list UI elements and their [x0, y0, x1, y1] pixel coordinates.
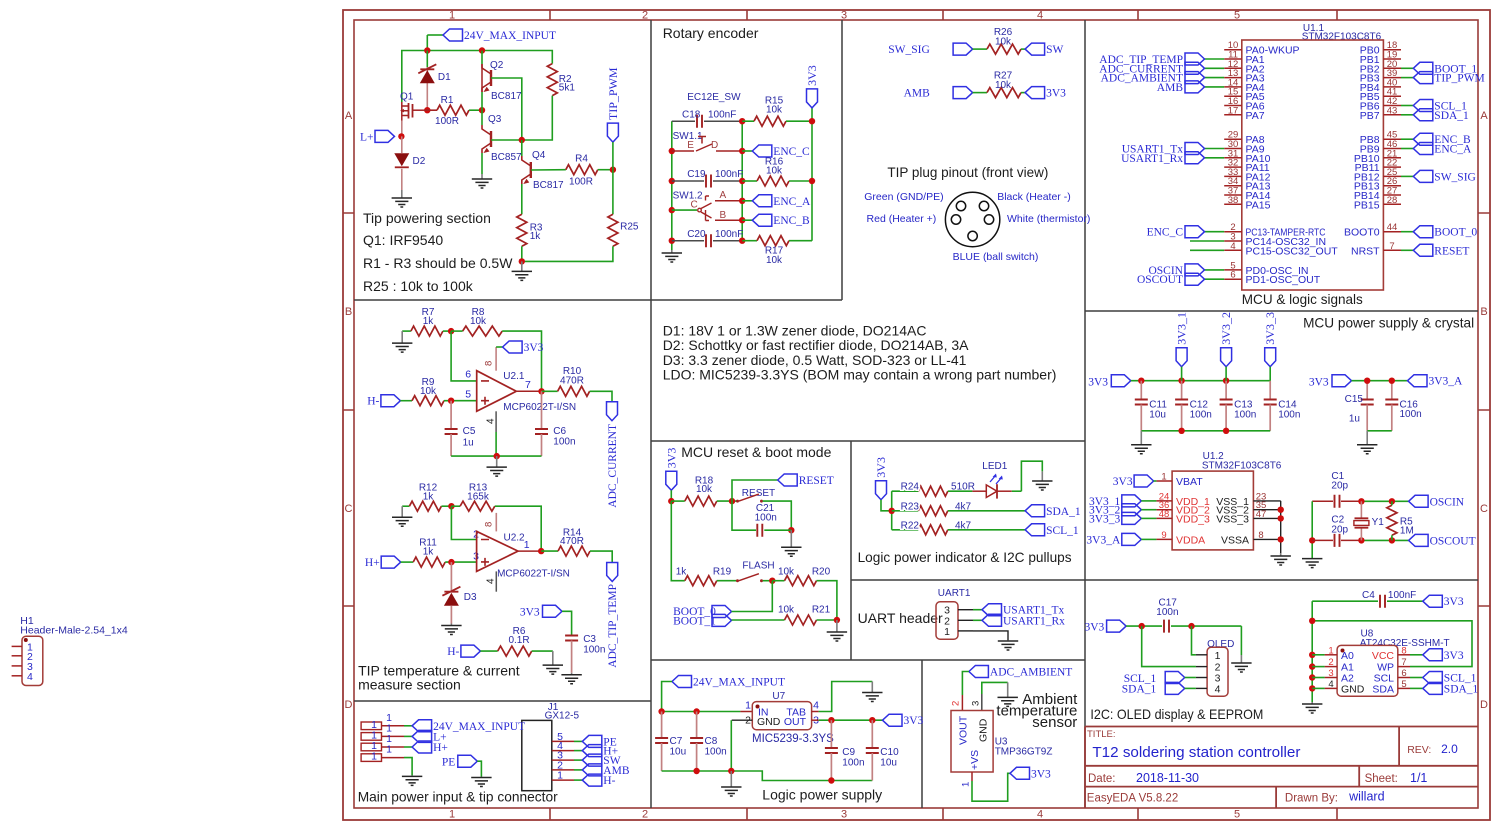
svg-text:AMB: AMB — [904, 88, 931, 100]
svg-text:E: E — [687, 140, 694, 151]
svg-text:U2.2: U2.2 — [504, 533, 526, 544]
svg-text:SDA_1: SDA_1 — [1434, 110, 1469, 122]
svg-text:LDO: MIC5239-3.3YS (BOM may co: LDO: MIC5239-3.3YS (BOM may contain a wr… — [663, 367, 1057, 383]
svg-text:3: 3 — [841, 809, 847, 821]
svg-text:measure section: measure section — [358, 677, 461, 693]
svg-text:3V3_A: 3V3_A — [1086, 534, 1121, 546]
svg-text:VDDA: VDDA — [1176, 534, 1205, 546]
svg-text:1: 1 — [449, 809, 455, 821]
svg-text:PA7: PA7 — [1246, 110, 1265, 122]
svg-text:willard: willard — [1348, 790, 1384, 804]
svg-text:1/1: 1/1 — [1410, 771, 1427, 785]
svg-text:43: 43 — [1387, 105, 1398, 116]
svg-text:LED1: LED1 — [982, 461, 1007, 472]
svg-text:EC12E_SW: EC12E_SW — [687, 92, 741, 103]
svg-text:100n: 100n — [755, 513, 777, 524]
svg-text:OLED: OLED — [1207, 639, 1234, 650]
svg-text:3: 3 — [971, 701, 982, 706]
svg-text:RESET: RESET — [799, 475, 834, 487]
svg-text:BC817: BC817 — [491, 91, 522, 102]
svg-text:2: 2 — [951, 701, 962, 706]
svg-text:0.1R: 0.1R — [508, 635, 529, 646]
svg-text:STM32F103C8T6: STM32F103C8T6 — [1302, 32, 1382, 43]
svg-text:Logic power supply: Logic power supply — [762, 787, 882, 803]
svg-text:GND: GND — [757, 716, 781, 728]
svg-text:R25: R25 — [620, 222, 639, 233]
svg-text:10k: 10k — [778, 567, 795, 578]
svg-text:Red (Heater +): Red (Heater +) — [867, 213, 937, 225]
svg-text:VDD_3: VDD_3 — [1176, 513, 1210, 525]
svg-text:1: 1 — [1161, 472, 1166, 483]
svg-text:C6: C6 — [553, 426, 566, 437]
svg-text:C: C — [1480, 503, 1488, 515]
svg-text:1: 1 — [524, 539, 530, 551]
svg-text:3V3: 3V3 — [805, 65, 819, 86]
svg-text:1k: 1k — [423, 316, 435, 327]
svg-text:TIP_PWM: TIP_PWM — [606, 67, 620, 120]
svg-text:100nF: 100nF — [715, 169, 743, 180]
svg-text:6: 6 — [1230, 270, 1235, 281]
svg-text:ENC_A: ENC_A — [1434, 144, 1472, 156]
svg-text:PD1-OSC_OUT: PD1-OSC_OUT — [1246, 274, 1321, 286]
svg-text:3: 3 — [1328, 668, 1333, 679]
svg-text:H+: H+ — [365, 557, 380, 569]
svg-text:B: B — [345, 306, 352, 318]
svg-text:5: 5 — [1401, 679, 1406, 690]
svg-text:C15: C15 — [1345, 394, 1364, 405]
svg-text:AMB: AMB — [1157, 82, 1184, 94]
svg-text:2: 2 — [642, 809, 648, 821]
svg-text:TMP36GT9Z: TMP36GT9Z — [995, 747, 1053, 758]
svg-text:3V3: 3V3 — [1031, 768, 1051, 780]
svg-text:4: 4 — [486, 418, 497, 424]
svg-text:1k: 1k — [530, 231, 542, 242]
svg-text:4: 4 — [1037, 10, 1043, 22]
svg-text:D3: 3.3 zener diode, 0.5 Watt,: D3: 3.3 zener diode, 0.5 Watt, SOD-323 o… — [663, 352, 967, 368]
svg-text:R23: R23 — [901, 501, 920, 512]
svg-text:1u: 1u — [463, 438, 474, 449]
svg-text:38: 38 — [1228, 195, 1239, 206]
svg-text:1: 1 — [961, 782, 972, 787]
svg-text:C8: C8 — [705, 736, 718, 747]
svg-text:165k: 165k — [467, 492, 490, 503]
svg-text:3V3: 3V3 — [664, 448, 678, 469]
svg-text:C4: C4 — [1362, 590, 1375, 601]
svg-text:H+: H+ — [433, 742, 448, 754]
svg-text:Sheet:: Sheet: — [1365, 773, 1398, 785]
svg-text:EasyEDA V5.8.22: EasyEDA V5.8.22 — [1087, 793, 1178, 805]
svg-text:+VS: +VS — [969, 750, 981, 770]
svg-text:4: 4 — [1328, 679, 1333, 690]
svg-text:B: B — [1480, 306, 1487, 318]
svg-text:UART header: UART header — [858, 610, 943, 626]
svg-text:D1: D1 — [438, 72, 451, 83]
svg-text:10u: 10u — [1149, 410, 1166, 421]
svg-text:4: 4 — [27, 671, 33, 683]
svg-text:24V_MAX_INPUT: 24V_MAX_INPUT — [464, 30, 556, 42]
svg-text:3V3_1: 3V3_1 — [1175, 312, 1189, 345]
svg-text:SDA_1: SDA_1 — [1046, 506, 1081, 518]
svg-text:100n: 100n — [1234, 410, 1256, 421]
svg-text:R1 - R3 should be 0.5W: R1 - R3 should be 0.5W — [363, 255, 513, 271]
svg-text:OSCOUT: OSCOUT — [1430, 535, 1476, 547]
svg-text:VSS_3: VSS_3 — [1216, 513, 1249, 525]
svg-text:C9: C9 — [842, 747, 855, 758]
svg-text:U7: U7 — [772, 691, 785, 702]
svg-text:24V_MAX_INPUT: 24V_MAX_INPUT — [433, 721, 525, 733]
svg-text:GND: GND — [1341, 683, 1365, 695]
svg-text:3V3: 3V3 — [1444, 650, 1464, 662]
svg-text:ENC_C: ENC_C — [1147, 227, 1184, 239]
svg-text:Black (Heater -): Black (Heater -) — [997, 191, 1071, 203]
svg-text:44: 44 — [1387, 222, 1398, 233]
svg-text:R4: R4 — [575, 154, 588, 165]
svg-text:3V3: 3V3 — [524, 342, 544, 354]
svg-text:4: 4 — [1037, 809, 1043, 821]
svg-text:28: 28 — [1387, 195, 1398, 206]
svg-text:A0: A0 — [1341, 650, 1354, 662]
svg-text:REV:: REV: — [1407, 744, 1431, 756]
svg-text:1: 1 — [449, 10, 455, 22]
svg-text:100n: 100n — [1156, 607, 1178, 618]
svg-text:6: 6 — [1401, 668, 1406, 679]
svg-text:ADC_AMBIENT: ADC_AMBIENT — [990, 667, 1072, 679]
svg-text:3V3_3: 3V3_3 — [1089, 513, 1121, 525]
svg-text:C10: C10 — [880, 747, 899, 758]
svg-text:20p: 20p — [1331, 525, 1348, 536]
svg-text:4: 4 — [813, 700, 819, 712]
svg-text:10u: 10u — [880, 758, 897, 769]
svg-text:PB15: PB15 — [1354, 199, 1380, 211]
svg-text:7: 7 — [1401, 657, 1406, 668]
svg-text:4: 4 — [1230, 241, 1235, 252]
svg-text:MCU reset & boot mode: MCU reset & boot mode — [681, 444, 831, 460]
svg-text:2: 2 — [642, 10, 648, 22]
svg-text:R25 : 10k to 100k: R25 : 10k to 100k — [363, 278, 474, 294]
svg-text:T12 soldering station controll: T12 soldering station controller — [1092, 744, 1300, 761]
svg-text:6: 6 — [465, 369, 471, 381]
svg-text:PE: PE — [442, 757, 455, 769]
svg-text:470R: 470R — [560, 536, 584, 547]
svg-text:10k: 10k — [696, 484, 713, 495]
svg-text:A: A — [720, 190, 727, 201]
svg-text:4: 4 — [486, 578, 497, 584]
svg-text:H-: H- — [603, 775, 615, 787]
svg-text:C7: C7 — [670, 736, 683, 747]
svg-text:100nF: 100nF — [1388, 590, 1416, 601]
svg-text:SW_SIG: SW_SIG — [1434, 171, 1476, 183]
svg-text:VBAT: VBAT — [1176, 476, 1203, 488]
svg-text:20p: 20p — [1331, 481, 1348, 492]
svg-text:2018-11-30: 2018-11-30 — [1136, 771, 1199, 785]
svg-text:48: 48 — [1159, 509, 1170, 520]
svg-text:C5: C5 — [463, 426, 476, 437]
svg-text:100n: 100n — [1400, 409, 1422, 420]
svg-text:1u: 1u — [1349, 414, 1360, 425]
svg-text:3V3: 3V3 — [904, 715, 924, 727]
svg-text:1k: 1k — [423, 547, 435, 558]
svg-text:D3: D3 — [464, 592, 477, 603]
svg-text:BOOT0: BOOT0 — [1344, 227, 1380, 239]
svg-text:10u: 10u — [670, 747, 687, 758]
svg-text:8: 8 — [484, 522, 495, 527]
svg-text:D: D — [1480, 699, 1488, 711]
svg-text:7: 7 — [1389, 241, 1394, 252]
svg-text:RESET: RESET — [1434, 245, 1469, 257]
svg-text:100n: 100n — [1278, 410, 1300, 421]
svg-text:R21: R21 — [812, 605, 831, 616]
svg-text:100R: 100R — [435, 116, 459, 127]
svg-text:1k: 1k — [423, 492, 435, 503]
svg-text:D: D — [345, 699, 353, 711]
svg-text:1: 1 — [1215, 650, 1221, 662]
svg-text:SDA_1: SDA_1 — [1444, 683, 1479, 695]
svg-text:Drawn By:: Drawn By: — [1285, 793, 1338, 805]
svg-text:FLASH: FLASH — [742, 561, 774, 572]
svg-text:Tip powering section: Tip powering section — [363, 210, 491, 226]
svg-text:BOOT_0: BOOT_0 — [1434, 227, 1477, 239]
svg-text:7: 7 — [525, 379, 531, 391]
svg-text:3V3_A: 3V3_A — [1429, 376, 1464, 388]
svg-text:R1: R1 — [441, 95, 454, 106]
svg-text:VOUT: VOUT — [958, 715, 970, 745]
svg-text:MCP6022T-I/SN: MCP6022T-I/SN — [503, 402, 576, 413]
svg-text:4: 4 — [1215, 683, 1221, 695]
svg-text:8: 8 — [1401, 645, 1406, 656]
svg-text:PC15-OSC32_OUT: PC15-OSC32_OUT — [1246, 245, 1339, 257]
svg-text:D2: D2 — [413, 156, 426, 167]
svg-text:1: 1 — [1328, 645, 1333, 656]
svg-text:3V3: 3V3 — [1444, 596, 1464, 608]
svg-text:C: C — [345, 503, 353, 515]
svg-text:100n: 100n — [583, 645, 605, 656]
svg-text:10k: 10k — [420, 386, 437, 397]
svg-text:TIP plug pinout (front view): TIP plug pinout (front view) — [887, 164, 1048, 180]
svg-text:5: 5 — [1234, 10, 1240, 22]
svg-text:GND: GND — [978, 718, 990, 742]
svg-text:ADC_CURRENT: ADC_CURRENT — [607, 424, 619, 508]
svg-text:1k: 1k — [676, 567, 688, 578]
svg-text:White (thermistor): White (thermistor) — [1007, 213, 1090, 225]
svg-text:MCU power supply & crystal: MCU power supply & crystal — [1303, 315, 1474, 331]
svg-text:Green (GND/PE): Green (GND/PE) — [864, 191, 943, 203]
svg-text:470R: 470R — [560, 376, 584, 387]
svg-text:SW1.2: SW1.2 — [673, 191, 703, 202]
svg-text:B: B — [720, 210, 727, 221]
svg-text:SCL_1: SCL_1 — [1046, 525, 1079, 537]
svg-text:100n: 100n — [1190, 410, 1212, 421]
svg-text:100nF: 100nF — [708, 110, 736, 121]
svg-text:Rotary encoder: Rotary encoder — [663, 25, 759, 41]
svg-text:STM32F103C8T6: STM32F103C8T6 — [1202, 461, 1282, 472]
svg-text:U2.1: U2.1 — [503, 371, 525, 382]
svg-text:BOOT_1: BOOT_1 — [673, 615, 716, 627]
svg-text:10k: 10k — [470, 316, 487, 327]
svg-text:SDA: SDA — [1372, 683, 1394, 695]
svg-text:UART1: UART1 — [938, 588, 971, 599]
svg-text:H-: H- — [447, 646, 459, 658]
svg-text:PB7: PB7 — [1360, 110, 1380, 122]
svg-text:3V3: 3V3 — [1046, 88, 1066, 100]
svg-text:SW: SW — [1046, 44, 1063, 56]
svg-text:100n: 100n — [553, 437, 575, 448]
svg-text:VSSA: VSSA — [1221, 534, 1249, 546]
svg-text:MIC5239-3.3YS: MIC5239-3.3YS — [752, 733, 834, 745]
svg-text:VCC: VCC — [1372, 650, 1395, 662]
svg-text:Header-Male-2.54_1x4: Header-Male-2.54_1x4 — [20, 625, 128, 637]
svg-text:3V3_2: 3V3_2 — [1219, 312, 1233, 345]
svg-text:Q1: IRF9540: Q1: IRF9540 — [363, 232, 443, 248]
svg-text:3V3: 3V3 — [874, 457, 888, 478]
svg-text:2: 2 — [1328, 657, 1333, 668]
svg-text:TITLE:: TITLE: — [1087, 729, 1116, 740]
svg-text:C3: C3 — [583, 634, 596, 645]
svg-text:SW_SIG: SW_SIG — [888, 44, 930, 56]
svg-text:ENC_B: ENC_B — [773, 215, 810, 227]
svg-text:3V3: 3V3 — [1113, 476, 1133, 488]
svg-text:5: 5 — [1234, 809, 1240, 821]
svg-text:TIP_PWM: TIP_PWM — [1434, 73, 1484, 85]
svg-text:PA15: PA15 — [1246, 199, 1271, 211]
svg-text:3V3: 3V3 — [1309, 377, 1329, 389]
svg-text:8: 8 — [484, 361, 495, 366]
svg-text:3: 3 — [841, 10, 847, 22]
svg-text:A: A — [1480, 110, 1488, 122]
svg-text:C20: C20 — [687, 229, 706, 240]
svg-text:OSCOUT: OSCOUT — [1137, 274, 1183, 286]
svg-text:10k: 10k — [995, 37, 1012, 48]
svg-text:Q4: Q4 — [532, 150, 546, 161]
svg-text:OSCIN: OSCIN — [1430, 496, 1465, 508]
svg-text:1: 1 — [944, 626, 950, 638]
svg-text:Y1: Y1 — [1372, 517, 1385, 528]
svg-text:10k: 10k — [766, 105, 783, 116]
svg-text:H-: H- — [367, 396, 379, 408]
svg-text:BC817: BC817 — [533, 180, 564, 191]
svg-text:10k: 10k — [995, 80, 1012, 91]
svg-text:9: 9 — [1161, 530, 1166, 541]
svg-text:D: D — [711, 140, 718, 151]
svg-text:100nF: 100nF — [715, 229, 743, 240]
svg-text:10k: 10k — [778, 605, 795, 616]
svg-text:1: 1 — [557, 770, 563, 782]
svg-text:5: 5 — [465, 389, 471, 401]
svg-text:BLUE (ball switch): BLUE (ball switch) — [953, 251, 1039, 263]
svg-text:SDA_1: SDA_1 — [1122, 684, 1157, 696]
svg-text:10k: 10k — [766, 166, 783, 177]
svg-text:100n: 100n — [705, 747, 727, 758]
svg-text:1M: 1M — [1400, 526, 1414, 537]
svg-text:2.0: 2.0 — [1441, 742, 1458, 756]
svg-text:1: 1 — [386, 744, 392, 756]
svg-text:100n: 100n — [842, 758, 864, 769]
svg-text:100R: 100R — [569, 177, 593, 188]
svg-text:ADC_TIP_TEMP: ADC_TIP_TEMP — [607, 584, 619, 668]
svg-text:1: 1 — [371, 751, 377, 763]
svg-text:R24: R24 — [901, 482, 920, 493]
svg-text:sensor: sensor — [1032, 714, 1077, 731]
svg-text:BC857: BC857 — [491, 152, 522, 163]
svg-text:R20: R20 — [812, 567, 831, 578]
svg-text:Date:: Date: — [1088, 773, 1116, 785]
svg-text:3V3: 3V3 — [520, 607, 540, 619]
svg-text:D2: Schottky or fast rectifier: D2: Schottky or fast rectifier diode, DO… — [663, 337, 969, 353]
svg-text:17: 17 — [1228, 105, 1239, 116]
svg-text:3V3: 3V3 — [1088, 377, 1108, 389]
svg-text:1: 1 — [745, 700, 751, 712]
svg-text:C19: C19 — [687, 169, 706, 180]
svg-text:Q3: Q3 — [488, 114, 502, 125]
svg-text:Q2: Q2 — [490, 60, 504, 71]
svg-text:3V3: 3V3 — [1084, 622, 1104, 634]
svg-text:24V_MAX_INPUT: 24V_MAX_INPUT — [693, 677, 785, 689]
svg-text:C: C — [691, 200, 698, 211]
svg-text:USART1_Rx: USART1_Rx — [1121, 153, 1183, 165]
svg-text:L+: L+ — [360, 131, 374, 143]
svg-text:MCU & logic signals: MCU & logic signals — [1242, 291, 1363, 307]
svg-text:Q1: Q1 — [400, 92, 414, 103]
svg-text:R22: R22 — [901, 520, 920, 531]
svg-text:C18: C18 — [682, 110, 701, 121]
svg-text:ENC_A: ENC_A — [773, 196, 811, 208]
svg-text:R19: R19 — [713, 567, 732, 578]
svg-text:OUT: OUT — [784, 716, 807, 728]
svg-text:A: A — [345, 110, 353, 122]
svg-text:MCP6022T-I/SN: MCP6022T-I/SN — [497, 569, 570, 580]
svg-text:5k1: 5k1 — [559, 83, 576, 94]
svg-text:10k: 10k — [766, 255, 783, 266]
svg-text:I2C: OLED display & EEPROM: I2C: OLED display & EEPROM — [1090, 706, 1263, 722]
svg-text:D1: 18V 1 or 1.3W zener diode,: D1: 18V 1 or 1.3W zener diode, DO214AC — [663, 323, 927, 339]
svg-text:NRST: NRST — [1351, 245, 1380, 257]
svg-text:3V3_3: 3V3_3 — [1263, 312, 1277, 345]
svg-text:Logic power indicator & I2C pu: Logic power indicator & I2C pullups — [858, 549, 1072, 565]
svg-text:USART1_Rx: USART1_Rx — [1003, 615, 1065, 627]
